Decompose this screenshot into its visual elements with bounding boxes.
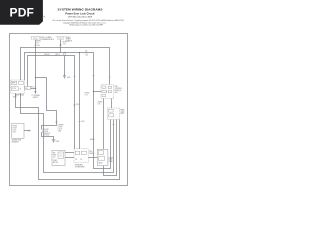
- svg-text:G200: G200: [67, 77, 71, 79]
- wire box2 to box3: [88, 157, 97, 159]
- svg-text:PDF: PDF: [9, 6, 34, 20]
- fuse box 2: [56, 34, 73, 42]
- page background: [0, 0, 149, 198]
- svg-text:LOCK: LOCK: [13, 129, 17, 131]
- left box connector wire: [24, 130, 31, 132]
- vertical from bus B to PSE box: [79, 53, 81, 150]
- svg-text:LCK: LCK: [53, 157, 56, 159]
- branch wire to switch chain: [36, 78, 57, 129]
- junction dots: [35, 47, 94, 92]
- svg-text:SWITCH: SWITCH: [44, 133, 50, 135]
- svg-text:1993 Mercedes-Benz 300E: 1993 Mercedes-Benz 300E: [68, 16, 93, 18]
- svg-text:FUSE 5: FUSE 5: [66, 37, 71, 39]
- svg-text:0.75: 0.75: [85, 94, 88, 96]
- svg-text:UNIT: UNIT: [13, 131, 16, 133]
- PDF badge: [0, 0, 43, 25]
- switch lower wire to ground: [42, 133, 54, 140]
- svg-text:SYSTEM (PSE): SYSTEM (PSE): [75, 166, 85, 168]
- small box K1: [25, 86, 36, 90]
- svg-text:PSE: PSE: [115, 86, 118, 88]
- loop H3 wire: [104, 120, 117, 176]
- svg-text:ELEMENT: ELEMENT: [12, 142, 19, 144]
- svg-text:UNIT: UNIT: [58, 130, 62, 132]
- svg-text:SUPPLY: SUPPLY: [33, 97, 39, 99]
- splice circle S200: [63, 53, 66, 56]
- ground G201: [52, 140, 60, 143]
- relay dashed box: [11, 80, 25, 99]
- svg-text:M1: M1: [75, 159, 77, 161]
- connector tick fuse2 drop: [60, 44, 62, 46]
- fuse box 1: [31, 34, 54, 41]
- module lower pin wire: [103, 99, 105, 150]
- svg-text:C20: C20: [85, 55, 88, 57]
- svg-text:RD/WT: RD/WT: [63, 42, 68, 44]
- svg-text:LOCK: LOCK: [109, 159, 113, 161]
- svg-text:FRONT: FRONT: [13, 125, 18, 127]
- svg-text:TO POWER: TO POWER: [32, 95, 41, 97]
- wire box1 to box2 upper: [65, 152, 74, 154]
- svg-text:C206: C206: [81, 121, 85, 123]
- svg-text:DRIVER: DRIVER: [58, 124, 65, 126]
- svg-text:C205: C205: [76, 104, 80, 106]
- svg-text:PWR: PWR: [12, 83, 15, 85]
- ground tap wire: [64, 56, 66, 76]
- vacuum element box (bottom center-left): [52, 150, 65, 165]
- svg-text:M2: M2: [80, 159, 82, 161]
- wire box1 to box2 lower: [65, 157, 74, 159]
- svg-text:RD 2.5: RD 2.5: [31, 86, 36, 88]
- arrow to other circuit: [32, 91, 41, 99]
- connector ticks center verticals: [56, 104, 81, 123]
- svg-text:LOCK: LOCK: [58, 128, 62, 130]
- svg-text:LOCK: LOCK: [44, 131, 48, 133]
- small box wire: [31, 88, 36, 90]
- svg-text:2.5: 2.5: [85, 53, 87, 55]
- diagram border: [10, 34, 128, 186]
- svg-text:0.75: 0.75: [98, 103, 101, 105]
- ground G200: [63, 76, 71, 79]
- wire labels fuse drops: [36, 41, 88, 57]
- fuse1 drop wire: [35, 40, 37, 92]
- svg-text:Wednesday, December 20, 2006 1: Wednesday, December 20, 2006 11:54PM: [69, 25, 103, 27]
- svg-text:PUMP: PUMP: [109, 161, 113, 163]
- svg-text:Power Door Lock Circuit: Power Door Lock Circuit: [65, 12, 94, 15]
- relay wire B / loop H2: [21, 93, 114, 172]
- svg-text:RD/GN: RD/GN: [45, 54, 50, 56]
- svg-text:UNIT: UNIT: [121, 113, 124, 115]
- PSE pump box (bottom center): [74, 149, 93, 169]
- PSE control module box (right mid): [101, 85, 122, 99]
- svg-text:0.75: 0.75: [63, 44, 66, 46]
- relay wire A / loop H4: [16, 93, 120, 179]
- connector tick fuse1 drop: [34, 44, 36, 46]
- svg-text:CONTROL: CONTROL: [115, 88, 122, 90]
- svg-text:LOCK: LOCK: [12, 88, 16, 90]
- badge side fleck: [44, 16, 45, 17]
- bus B wire / loop H1: [25, 53, 111, 169]
- svg-text:UNIT: UNIT: [115, 92, 119, 94]
- connector tick bus B vertical: [93, 75, 95, 77]
- svg-text:MODULE: MODULE: [115, 90, 121, 92]
- svg-text:C100: C100: [36, 45, 40, 47]
- connector tick below rear box: [113, 124, 115, 126]
- svg-text:DOOR: DOOR: [109, 157, 113, 159]
- wire bus B into module: [94, 91, 102, 93]
- svg-text:PUMP: PUMP: [53, 160, 57, 162]
- svg-text:PWR: PWR: [53, 155, 56, 157]
- svg-text:K29: K29: [25, 88, 28, 90]
- module to rear box stub wire: [111, 99, 113, 109]
- door lock switch: [41, 129, 50, 137]
- svg-text:FRT: FRT: [53, 153, 56, 155]
- bus A wire: [21, 48, 110, 85]
- connector ticks on left box wire: [28, 130, 30, 132]
- connector tick bus A vertical: [109, 76, 111, 78]
- svg-text:RD/YL: RD/YL: [56, 54, 61, 56]
- rear door lock box: [108, 108, 125, 120]
- fuse2 drop wire: [60, 40, 62, 53]
- svg-text:DOOR: DOOR: [13, 127, 17, 129]
- svg-text:N16/1: N16/1: [13, 97, 17, 99]
- front pump unit box (bottom right of center): [97, 149, 112, 165]
- svg-text:(LOCK): (LOCK): [44, 135, 50, 137]
- connector tick center vertical upper: [74, 76, 76, 78]
- svg-text:G201: G201: [56, 141, 60, 143]
- svg-text:0.75: 0.75: [36, 43, 39, 45]
- svg-text:PSE: PSE: [89, 151, 92, 153]
- door lock motor box (bottom left): [12, 123, 24, 143]
- line C wire: [28, 56, 75, 150]
- svg-text:LOCK: LOCK: [121, 111, 125, 113]
- svg-text:DRIVER SIDE: DRIVER SIDE: [12, 140, 22, 142]
- svg-text:MOTOR: MOTOR: [53, 162, 58, 164]
- svg-text:PUMP: PUMP: [89, 153, 93, 155]
- svg-text:SYSTEM WIRING DIAGRAMS: SYSTEM WIRING DIAGRAMS: [58, 7, 103, 11]
